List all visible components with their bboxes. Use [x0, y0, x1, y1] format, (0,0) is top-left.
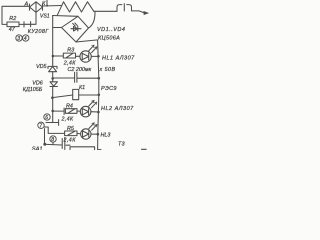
- pin number 7: [38, 122, 44, 129]
- wire K1 row right: [79, 94, 99, 96]
- svg-text:8: 8: [51, 137, 54, 143]
- node R3 branch: [52, 55, 55, 58]
- wire open pin row: [46, 122, 58, 124]
- wire pin8 row: [46, 143, 62, 146]
- wire top-left anode loop: [2, 6, 30, 24]
- svg-text:2,4К: 2,4К: [63, 60, 76, 66]
- svg-text:VD6: VD6: [32, 80, 43, 86]
- wire bridge left stub: [53, 27, 62, 29]
- connector pin 4: [30, 22, 32, 27]
- connector pin bar: [58, 120, 60, 126]
- relay coil K1: [73, 89, 79, 99]
- capacitor C2: [75, 72, 77, 82]
- wire HL1 to rail: [91, 55, 98, 57]
- wire gate: [24, 13, 36, 25]
- pin number 4: [23, 35, 29, 42]
- LED HL3: [81, 129, 91, 139]
- wire zigzag to connector: [94, 10, 117, 12]
- wire pin7 to R5 jog: [44, 127, 64, 133]
- connector X1 pin: [123, 4, 125, 11]
- svg-text:A: A: [24, 1, 29, 7]
- connector pin 3: [23, 22, 25, 27]
- svg-text:R3: R3: [67, 47, 74, 53]
- wire bridge right vertex curve: [89, 11, 96, 28]
- node C2 branch: [51, 77, 54, 80]
- resistor R3: [63, 53, 75, 58]
- wire R2 to gate connector: [19, 23, 24, 25]
- connector pin 6 bars: [63, 108, 65, 115]
- node HL3 junction: [97, 133, 100, 136]
- svg-text:6: 6: [45, 115, 48, 121]
- svg-text:КУ208Г: КУ208Г: [28, 29, 50, 35]
- node K dot: [46, 5, 48, 7]
- svg-text:КД105Б: КД105Б: [23, 87, 43, 93]
- svg-text:К1: К1: [79, 85, 85, 91]
- bridge VD1-VD4: [62, 16, 89, 42]
- wire under zigzag to bridge top: [53, 15, 78, 18]
- svg-text:R4: R4: [66, 103, 73, 109]
- svg-text:HL3: HL3: [101, 132, 111, 138]
- node K1-rail: [98, 94, 101, 97]
- svg-text:R5: R5: [67, 126, 75, 132]
- svg-text:x 50В: x 50В: [99, 67, 116, 73]
- wire cathode: [43, 5, 62, 8]
- svg-text:HL2 АЛ307: HL2 АЛ307: [101, 106, 134, 112]
- resistor R5: [65, 131, 77, 136]
- wire R3 row: [53, 55, 63, 57]
- LED HL2: [80, 106, 91, 117]
- node HL2-rail: [97, 111, 100, 114]
- svg-text:РЭС9: РЭС9: [101, 86, 117, 92]
- wire C2 row right: [77, 77, 99, 79]
- pin number 3: [16, 35, 22, 42]
- svg-text:Т3: Т3: [118, 142, 125, 148]
- wire R5 to HL3: [77, 132, 81, 135]
- svg-text:3: 3: [17, 36, 20, 42]
- wire HL2 to rail: [91, 111, 99, 113]
- wire R4 to HL2: [77, 110, 80, 112]
- svg-text:КЦ506А: КЦ506А: [98, 36, 120, 42]
- bridge internal diode: [71, 23, 81, 31]
- svg-text:С2 200мк: С2 200мк: [68, 67, 92, 73]
- wire R3 to HL1: [76, 55, 80, 57]
- switch SA1 wire: [44, 129, 46, 144]
- wire R4 row left: [53, 110, 64, 112]
- pin number 8: [50, 136, 56, 143]
- wire pin8 stub: [52, 142, 54, 144]
- diode VD6: [50, 82, 57, 87]
- svg-text:SA1: SA1: [32, 147, 43, 150]
- heater zigzag: [57, 2, 94, 15]
- wire HL3 to rail: [91, 133, 98, 135]
- node R4 branch: [51, 110, 54, 113]
- left rail: [52, 16, 54, 123]
- node HL1-rail: [97, 55, 100, 58]
- svg-text:HL1 АЛ307: HL1 АЛ307: [102, 55, 135, 61]
- svg-text:2,4К: 2,4К: [61, 116, 74, 122]
- node K1 branch: [51, 96, 54, 99]
- block T3 outline: [66, 145, 95, 150]
- resistor R4: [65, 109, 77, 114]
- svg-text:7: 7: [39, 124, 42, 130]
- wire K1 row left: [52, 95, 72, 98]
- connector X1 right half: [127, 5, 132, 11]
- svg-text:4: 4: [24, 36, 27, 42]
- svg-text:47: 47: [9, 27, 16, 33]
- wire to mains arrow: [132, 11, 145, 13]
- svg-text:VS1: VS1: [40, 13, 50, 19]
- svg-text:VD1..VD4: VD1..VD4: [97, 27, 125, 33]
- svg-text:VD5: VD5: [36, 64, 47, 70]
- corner mark bottom right: [142, 148, 147, 150]
- connector X1 left half: [117, 5, 122, 12]
- node C2-rail: [98, 77, 101, 80]
- wire C2 row left: [53, 77, 74, 79]
- connector pin 8 bars: [62, 138, 65, 150]
- switch SA1 pivot: [43, 143, 46, 146]
- svg-text:R2: R2: [9, 16, 16, 22]
- triac VS1: [30, 2, 43, 13]
- LED HL1: [80, 51, 91, 62]
- pin number 6: [44, 114, 50, 121]
- resistor R2: [7, 22, 19, 27]
- zener VD5: [48, 66, 57, 71]
- wire bridge bottom to rail: [76, 40, 101, 150]
- svg-text:2,4К: 2,4К: [63, 137, 77, 143]
